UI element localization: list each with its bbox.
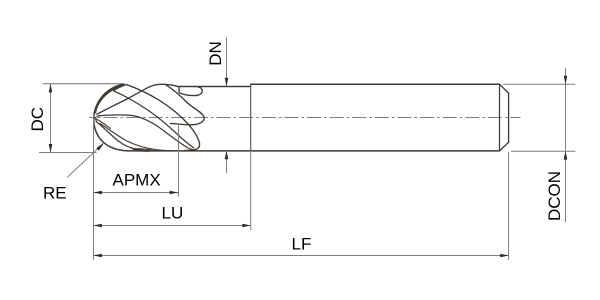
neck-shank step edge (250, 84, 252, 151)
flute 1 land upper edge big sweep with bottom hook (126, 85, 199, 151)
LF dimension line (94, 255, 509, 257)
tip sliver lower line (114, 85, 127, 91)
LF arrow right (500, 254, 509, 258)
DN arrow up (225, 151, 229, 160)
flute 2 leading edge over top (97, 84, 179, 114)
svg-text:LU: LU (162, 203, 184, 222)
tool end extension line (508, 152, 510, 260)
bottom margin sliver (133, 149, 153, 152)
shank end face (508, 93, 510, 142)
DC arrow down (49, 144, 53, 153)
flute 1 land lower edge parallel sweep (114, 91, 194, 148)
LU arrow left (93, 224, 102, 228)
body bottom edge (128, 150, 500, 152)
neck top edge (179, 86, 251, 88)
flute end extension line (178, 125, 180, 197)
DN lower dimension line (226, 151, 228, 173)
tip middle short edge (96, 119, 110, 129)
DCON dimension line (565, 68, 567, 222)
DC top extension line (43, 83, 124, 85)
APMX arrow left (93, 191, 102, 195)
centerline (89, 117, 521, 119)
flute upper leaf loop (166, 85, 205, 125)
tip notch (95, 116, 99, 122)
svg-text:LF: LF (292, 235, 312, 254)
neck end extension line (250, 151, 252, 230)
svg-text:DC: DC (28, 107, 47, 132)
flute end tab (179, 87, 202, 96)
DC arrow up (49, 84, 53, 93)
RE arrowhead (96, 143, 104, 151)
shank top edge (251, 83, 500, 85)
LF arrow left (93, 254, 102, 258)
DC bottom extension line (39, 152, 97, 154)
DCON bottom extension line (511, 150, 575, 152)
flute 3 edge from tip (near-horizontal then diagonal) (99, 115, 194, 150)
DCON arrow down (564, 76, 568, 85)
inner margin arc upper-left (96, 86, 122, 113)
DN upper dimension line (226, 38, 228, 87)
flute valley upper edge (100, 124, 174, 151)
shank end chamfer bottom (500, 142, 509, 151)
LU arrow right (242, 224, 251, 228)
ball nose outer silhouette (94, 84, 128, 151)
svg-text:DN: DN (206, 41, 225, 66)
crescent middle arc upper-left (99, 85, 123, 101)
left extension line (tool tip) (93, 113, 95, 260)
APMX dimension line (94, 192, 179, 194)
svg-text:RE: RE (43, 184, 67, 203)
svg-text:APMX: APMX (113, 170, 161, 189)
RE leader line (67, 144, 103, 178)
LU dimension line (94, 225, 251, 227)
DC dimension line (50, 84, 52, 152)
DCON top extension line (503, 83, 575, 85)
APMX arrow right (170, 191, 179, 195)
DN arrow down (225, 78, 229, 87)
flute valley lower edge along ball bottom (96, 122, 168, 151)
shank chamfer tangent line (499, 84, 501, 151)
DCON arrow up (564, 151, 568, 160)
svg-text:DCON: DCON (545, 171, 564, 221)
shank end chamfer top (500, 84, 509, 93)
